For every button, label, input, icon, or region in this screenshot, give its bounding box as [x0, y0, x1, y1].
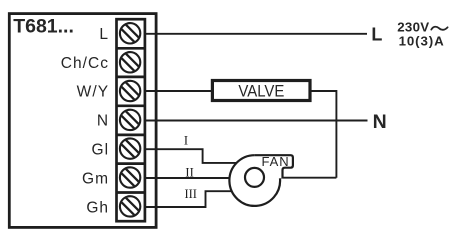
wire valve to vertical	[310, 91, 336, 178]
screw terminal Gl	[119, 138, 141, 160]
svg-text:L: L	[99, 26, 109, 43]
screw terminal W/Y	[119, 80, 141, 102]
svg-text:Gh: Gh	[86, 199, 109, 216]
fan circle outline	[229, 155, 280, 206]
wire W/Y to valve	[144, 90, 215, 92]
fan outlet duct	[255, 155, 293, 178]
wire L	[144, 33, 368, 35]
svg-text:T681...: T681...	[13, 15, 74, 37]
thermostat box T681...	[9, 14, 156, 228]
wire N	[144, 120, 368, 122]
wire Gm speed II	[144, 177, 233, 179]
svg-text:FAN: FAN	[262, 154, 290, 169]
svg-text:230V: 230V	[397, 19, 429, 34]
screw terminal Ch/Cc	[119, 51, 141, 73]
wire Gl speed I	[144, 149, 243, 163]
terminal strip	[117, 19, 145, 221]
valve box	[212, 81, 310, 101]
wire Gh speed III	[144, 191, 236, 207]
screw terminal Gh	[119, 195, 141, 217]
svg-text:N: N	[373, 111, 387, 133]
svg-text:10(3)A: 10(3)A	[399, 33, 445, 48]
svg-text:II: II	[185, 165, 193, 179]
wire fan to vertical	[281, 177, 336, 179]
fan hub	[245, 168, 264, 187]
cell dividers	[117, 48, 145, 192]
svg-text:III: III	[184, 187, 197, 201]
screw terminal N	[119, 109, 141, 131]
svg-text:VALVE: VALVE	[238, 82, 284, 101]
svg-text:L: L	[371, 24, 382, 44]
screw terminal Gm	[119, 167, 141, 189]
svg-text:I: I	[184, 133, 188, 147]
svg-text:N: N	[97, 112, 109, 129]
svg-text:Gm: Gm	[82, 171, 109, 188]
svg-text:Gl: Gl	[91, 142, 109, 159]
screw terminal L	[119, 22, 141, 44]
fan M1 body fill	[229, 155, 293, 206]
svg-text:Ch/Cc: Ch/Cc	[61, 55, 109, 72]
svg-text:W/Y: W/Y	[77, 83, 109, 100]
AC sine symbol	[431, 27, 447, 30]
